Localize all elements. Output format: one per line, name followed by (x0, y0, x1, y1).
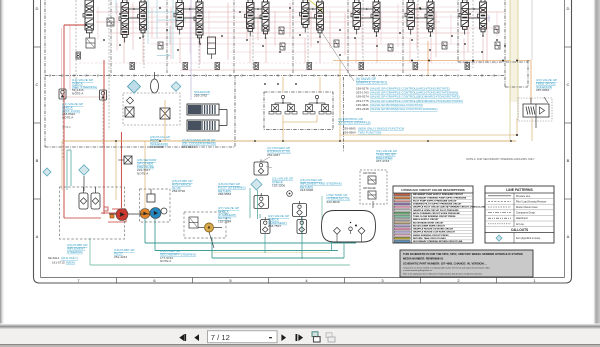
svg-text:SCHEMATIC PART NUMBER: 257-498: SCHEMATIC PART NUMBER: 257-4985, CHANGE:… (403, 262, 487, 266)
svg-text:Drains / Return Lines: Drains / Return Lines (516, 206, 538, 209)
svg-text:GRAPPLE ROTATE CCW WORK CIRCUI: GRAPPLE ROTATE CCW WORK CIRCUIT (413, 231, 455, 234)
svg-text:Item (hyperlink to more): Item (hyperlink to more) (516, 237, 540, 240)
svg-text:132-1206: 132-1206 (272, 183, 285, 187)
svg-text:CALLOUTS: CALLOUTS (511, 228, 528, 232)
svg-text:STEERING PILOT SUPPLY PRESSURE: STEERING PILOT SUPPLY PRESSURE CIRCUIT (413, 204, 462, 206)
svg-text:Attachment: Attachment (516, 217, 528, 220)
svg-text:244-4803: 244-4803 (150, 145, 163, 149)
svg-text:D: D (36, 6, 39, 11)
svg-text:LINE PATTERNS: LINE PATTERNS (506, 188, 533, 192)
svg-text:AIR RELIEF: AIR RELIEF (363, 187, 377, 190)
svg-text:Component Group: Component Group (516, 212, 536, 215)
svg-text:SECONDARY STEERING RETURN CIRC: SECONDARY STEERING RETURN CIRCUIT LINE (413, 240, 463, 243)
svg-text:C: C (567, 82, 570, 87)
svg-text:SWING WORKING CIRCUIT PRESS: SWING WORKING CIRCUIT PRESS (413, 235, 449, 237)
svg-text:GRAPPLE CONTROL: GRAPPLE CONTROL (356, 81, 388, 85)
svg-text:NOTE A: FOR SECONDARY STEERING: NOTE A: FOR SECONDARY STEERING ANCHORS O… (466, 157, 535, 161)
svg-text:THIS SCHEMATIC IS FOR THE 525C: THIS SCHEMATIC IS FOR THE 525C, 535C, AN… (403, 252, 523, 256)
svg-text:MEDIA NUMBER: RENR8898-01: MEDIA NUMBER: RENR8898-01 (403, 257, 444, 261)
svg-text:BOOM RAISE WORK CIRCUIT: BOOM RAISE WORK CIRCUIT (413, 221, 444, 224)
svg-text:in neutral and with parking br: in neutral and with parking brake set. (403, 269, 433, 272)
svg-text:(NEW): (NEW) (66, 260, 75, 264)
svg-text:253-1762: 253-1762 (194, 93, 207, 97)
svg-text:STEERING: STEERING (67, 250, 83, 254)
svg-text:SECONDARY STEERING PUMP SUPPLY: SECONDARY STEERING PUMP SUPPLY PRESSURE (413, 196, 467, 199)
svg-text:252-0796: 252-0796 (172, 189, 185, 193)
svg-text:IMPLEMENT PUMP SUPPLY PRESSURE: IMPLEMENT PUMP SUPPLY PRESSURE CIRCUIT (413, 194, 464, 196)
svg-text:251-4243: 251-4243 (114, 255, 127, 259)
svg-text:RETURN / TANK CIRCUIT LINES: RETURN / TANK CIRCUIT LINES (413, 237, 446, 240)
svg-text:C: C (36, 82, 39, 87)
svg-text:ARCH FORWARD CIRCUIT WORK PRES: ARCH FORWARD CIRCUIT WORK PRESSURE (413, 212, 460, 215)
svg-text:JOYSTICK (GRAPPLE): JOYSTICK (GRAPPLE) (338, 121, 371, 125)
svg-text:161-5715: 161-5715 (52, 260, 65, 264)
svg-text:B: B (567, 158, 570, 163)
svg-text:A: A (567, 234, 570, 239)
svg-text:NOTE A: NOTE A (62, 126, 71, 129)
svg-text:Pressure Line: Pressure Line (516, 195, 531, 198)
svg-text:B: B (36, 158, 39, 163)
svg-text:220-8628: 220-8628 (327, 200, 340, 204)
svg-text:(VALVE GP-BOOM)(DUAL FUNCTION: (VALVE GP-BOOM)(DUAL FUNCTION W/SWING) (370, 107, 437, 111)
svg-text:NOTE A: NOTE A (72, 92, 84, 96)
svg-text:AIR INTAKE: AIR INTAKE (363, 172, 377, 175)
svg-text:152-2684: 152-2684 (218, 220, 231, 224)
svg-text:253-7537: 253-7537 (268, 224, 281, 228)
svg-text:214-6328: 214-6328 (300, 188, 313, 192)
svg-text:TWO FUNCTION: TWO FUNCTION (358, 131, 381, 135)
svg-text:Refer to the appropriate Servi: Refer to the appropriate Service Manual … (403, 273, 483, 276)
svg-text:239-9904: 239-9904 (343, 131, 356, 135)
svg-text:266-9554: 266-9554 (218, 192, 231, 196)
svg-text:Air Line: Air Line (516, 223, 525, 226)
svg-text:NOTE A: NOTE A (137, 172, 149, 176)
svg-text:WINCH SUPPLY CIRCUIT: WINCH SUPPLY CIRCUIT (413, 219, 439, 221)
svg-text:TONG CLOSE WORKING CIRCUIT PRE: TONG CLOSE WORKING CIRCUIT PRESS (413, 216, 456, 218)
svg-text:GRAPPLE OPEN CIRCUIT PILOT PRE: GRAPPLE OPEN CIRCUIT PILOT PRESSURE (413, 209, 459, 212)
svg-text:GRAPPLE ROTATE CW WORK CIRCUIT: GRAPPLE ROTATE CW WORK CIRCUIT (413, 228, 454, 231)
svg-text:D: D (567, 6, 570, 11)
svg-text:HYDRAULIC CIRCUIT COLOR DESCRI: HYDRAULIC CIRCUIT COLOR DESCRIPTIONS (401, 188, 464, 192)
svg-text:BOOM LOWER WORK CIRCUIT: BOOM LOWER WORK CIRCUIT (413, 225, 446, 227)
svg-text:247-4743: 247-4743 (376, 159, 389, 163)
svg-text:A: A (36, 234, 39, 239)
svg-text:NOTE A: NOTE A (160, 259, 172, 263)
svg-text:170-6631: 170-6631 (182, 145, 195, 149)
svg-text:252-6067: 252-6067 (267, 153, 280, 157)
svg-text:NOTE A: NOTE A (62, 116, 74, 120)
svg-text:7 / 12: 7 / 12 (211, 333, 230, 342)
svg-text:287-6064: 287-6064 (536, 88, 549, 92)
svg-text:253-2348: 253-2348 (356, 107, 369, 111)
svg-text:Pilot / Load Sensing Pressure: Pilot / Load Sensing Pressure (516, 200, 547, 203)
svg-text:PILOT PUMP SUPPLY PRESSURE CIR: PILOT PUMP SUPPLY PRESSURE CIRCUIT (413, 200, 457, 202)
